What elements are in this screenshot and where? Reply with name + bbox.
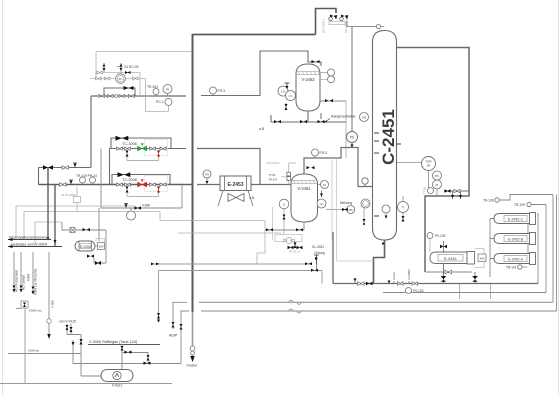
valve manifold TC-1006 <box>116 136 168 161</box>
vertical labels bottom-left <box>13 268 38 295</box>
node: column top nozzle circle <box>376 24 380 28</box>
wire: exchanger bank left feed header <box>490 219 494 278</box>
valve: E-2454 inlet pair <box>83 228 91 231</box>
valve: x=81 down arrow <box>80 339 83 345</box>
svg-text:LI: LI <box>283 203 286 207</box>
svg-text:24 SC xx: 24 SC xx <box>289 250 301 254</box>
wire: x=101 drop from TC-1006 line to KSW line <box>100 149 102 209</box>
valve: suction loop pair <box>125 351 132 354</box>
instrument: TDR-04 <box>422 157 436 171</box>
wire: E-2453 inlet <box>197 184 220 186</box>
svg-text:K09: K09 <box>99 245 104 249</box>
svg-text:KSW zur Merschw.: KSW zur Merschw. <box>34 268 38 295</box>
valve: x=148 arrows <box>147 355 150 361</box>
wire: header left hook y=311 to ADIP/V-9111 <box>181 311 189 364</box>
wire: gray line y=233 <box>178 232 281 234</box>
valve: E-2454 loop pair <box>95 261 101 265</box>
valve: x=73 down arrow <box>72 342 75 346</box>
wire: inter-exchanger connectors x=528 <box>527 224 529 254</box>
valve manifold TC-2006 <box>117 172 168 196</box>
instrument: LI left of V-2461 <box>279 199 289 209</box>
wire: E-2454 inlet line <box>62 222 106 263</box>
svg-text:TR-106: TR-106 <box>483 199 494 203</box>
vessel V-2461 <box>291 174 318 222</box>
valve: open gate pairs left <box>117 147 123 150</box>
svg-text:SC-2451/1: SC-2451/1 <box>322 19 326 33</box>
svg-text:KSW neu: KSW neu <box>29 309 42 313</box>
valve: bypass black gate <box>124 86 134 90</box>
svg-text:HD- Kondensat: HD- Kondensat <box>15 270 19 292</box>
wire: V-9111 inlet from von V-9115 <box>67 324 101 376</box>
wire: PI pair stem <box>436 189 438 196</box>
svg-text:PC-1: PC-1 <box>156 100 164 104</box>
valve: open gate pairs right <box>150 147 156 150</box>
instrument: TR-102 <box>427 233 433 239</box>
wire: gray verticals x=332/336.5 <box>332 158 374 261</box>
wire: V-2462 top inlet with valve <box>308 62 321 65</box>
svg-text:E-2452 C: E-2452 C <box>508 217 524 221</box>
wire: Fackel line below frame <box>192 312 194 357</box>
svg-text:KSW: KSW <box>143 204 151 208</box>
wire: E-2453 outlet to V-2461 <box>251 184 291 186</box>
valve: vent arrows up-down pair 2 <box>120 64 123 72</box>
flare arrow: Fackel <box>190 356 194 362</box>
svg-text:TT-05: TT-05 <box>423 187 427 194</box>
valve: drain T between <box>321 191 323 198</box>
valve: vertical T black <box>294 242 296 248</box>
svg-text:Meldung: Meldung <box>340 201 352 205</box>
instrument: TM circle right of V-2462 bottom line <box>360 113 369 122</box>
svg-text:KSW: KSW <box>27 274 31 281</box>
svg-text:SC-2451/2: SC-2451/2 <box>344 19 348 33</box>
svg-text:L2-0002: L2-0002 <box>407 269 411 280</box>
wire: HD Dampf arrow stem <box>20 252 22 292</box>
signal box with control valve <box>275 235 302 242</box>
svg-text:PI: PI <box>323 183 326 187</box>
instrument: PI right of V-2461 <box>321 181 329 189</box>
wire: V-3006 label underline <box>88 344 160 346</box>
instrument: Meldung circle <box>347 206 355 214</box>
wire: V-2461 instrument stubs <box>318 185 347 210</box>
valves on y=72.5 <box>97 71 103 74</box>
pump V-9111 <box>101 370 133 388</box>
wire: KSW branch down to E-2454 <box>98 208 100 241</box>
wire: nested signal L2 long to relief cluster <box>24 212 265 265</box>
wire: column bottom outlet <box>374 240 385 284</box>
wire: TI x=403 stems <box>402 196 404 220</box>
valve: open gate pairs right <box>150 183 156 186</box>
wire: top-right manifold y=191 <box>444 191 469 199</box>
instrument: LC right of V-2461 <box>317 199 326 208</box>
svg-text:Fackel: Fackel <box>187 364 198 368</box>
bottoms cluster under V-2461 <box>266 228 303 253</box>
column bottom instruments <box>361 199 409 225</box>
wire: V-2461 bottom to valve cluster <box>265 222 304 230</box>
label: ADIP with valve stems <box>172 322 175 328</box>
wire: relief inlet line y=264 <box>151 263 311 265</box>
svg-text:a.B.: a.B. <box>259 127 265 131</box>
wire: header left hook y=302.3 to ADIP <box>173 302 187 329</box>
svg-text:TT-05: TT-05 <box>269 173 276 177</box>
wire: main frame thick top y=34.5 <box>193 34 316 36</box>
svg-text:SL-2451: SL-2451 <box>312 245 324 249</box>
svg-text:E-2452 A: E-2452 A <box>508 257 523 261</box>
svg-text:HD Dampf: HD Dampf <box>22 275 26 290</box>
valve: y=363.5 pair <box>144 362 151 365</box>
valve: bypass black gate TC-1006 <box>116 136 129 141</box>
wire: left riser x=91 <box>90 96 92 168</box>
instrument: PI pair right of column <box>433 171 442 180</box>
labels: LC-02 / L2-0002 vertical <box>388 269 418 285</box>
svg-text:FR-3: FR-3 <box>218 89 226 93</box>
valve: V-9111 riser arrow <box>121 346 124 351</box>
wire: KSW zur arrow stem <box>32 252 34 294</box>
svg-text:24 TC-2006: 24 TC-2006 <box>61 193 76 197</box>
svg-text:V-3006 Raffelgas (Tank-124): V-3006 Raffelgas (Tank-124) <box>89 340 138 344</box>
valve: E-2451 top pair <box>443 241 445 252</box>
bypass loop over y=96 <box>104 88 135 96</box>
wire: V-958 line <box>8 252 81 354</box>
relief valve SL-2451 <box>305 245 325 272</box>
valve: left end arrows of y=264 <box>151 263 159 266</box>
SC-2451 shutoff valves at top <box>322 15 349 34</box>
wire: upper-left main line y=96 <box>91 95 186 97</box>
exchanger E-2452 C <box>494 213 536 225</box>
svg-text:PI: PI <box>436 183 439 187</box>
wire: nested signal L3 <box>35 222 62 247</box>
svg-text:LS: LS <box>281 90 285 94</box>
wire: column top nozzle line <box>347 26 376 28</box>
svg-text:TR-141: TR-141 <box>269 178 278 182</box>
instrument: V-2462 LS circles <box>278 86 288 96</box>
svg-text:PS: PS <box>350 136 354 140</box>
svg-text:TI: TI <box>402 206 405 210</box>
instrument: TR-103 <box>406 288 412 294</box>
svg-text:V-958: V-958 <box>51 300 55 308</box>
wire: bank outer corner x=556.5 <box>556 195 558 312</box>
valve: E-2454 inlet X-valve <box>70 228 75 233</box>
valve: gray gate on y=272 <box>445 270 452 274</box>
component: SC valves base bar <box>329 22 345 25</box>
valve: vent arrows up-down pair 1 <box>103 64 106 72</box>
svg-text:PS: PS <box>435 174 439 178</box>
instrument: PI <box>163 85 172 94</box>
svg-text:E-2452 B: E-2452 B <box>508 237 524 241</box>
svg-text:PI: PI <box>166 88 169 92</box>
svg-text:TR-102: TR-102 <box>435 234 446 238</box>
valve: x=158.5 drain stem arrows <box>157 313 160 319</box>
svg-text:TR-101: TR-101 <box>506 266 517 270</box>
valves on y=184.5 left <box>60 183 67 187</box>
svg-text:V-2461: V-2461 <box>297 186 311 191</box>
bottoms header valve cluster x=355-372 <box>354 278 373 285</box>
svg-text:Frischgaskompressoren: Frischgaskompressoren <box>9 236 47 240</box>
svg-text:LS: LS <box>289 94 293 98</box>
valves on y=169.5 line <box>43 165 53 170</box>
component: KSW neu valve box <box>21 301 28 308</box>
valve: Meldung line pair <box>342 208 348 211</box>
svg-text:FR-2: FR-2 <box>320 151 328 155</box>
exchanger E-2454 <box>75 239 105 252</box>
instrument: V-2462 TI circles <box>328 69 335 76</box>
exchanger E-2451 <box>430 249 486 268</box>
wire: TC-2006 main line y=184.5 <box>39 184 193 186</box>
valve: drain stems TC-2006 <box>127 186 159 197</box>
instrument: FR-3 <box>210 87 217 94</box>
svg-text:FC: FC <box>119 77 123 81</box>
vessel V-2462 <box>296 64 320 111</box>
svg-text:ADIP: ADIP <box>169 334 178 338</box>
upper-left SC-05 group <box>96 63 139 83</box>
valves on y=78.5 <box>96 77 102 80</box>
valve: vent T <box>73 163 77 168</box>
node: Fackel break circles <box>190 346 195 351</box>
valve: V-2462 right nozzle pair <box>325 99 333 102</box>
valve: bypass black gate TC-2006 <box>118 172 131 177</box>
wire: TC-2006 bypass <box>112 175 170 185</box>
page scan edge left <box>2 0 4 395</box>
instrument: FR-2 <box>312 149 319 156</box>
svg-text:TR-103: TR-103 <box>413 289 424 293</box>
valve: V-2462 left drain <box>285 103 287 110</box>
wire: column overhead right y=47.5 down right side to y=196 header <box>397 48 470 273</box>
wire: thick drop x=55 <box>54 185 56 247</box>
valve: manifold y=191 fittings <box>445 189 451 192</box>
wire: KSW line y=208 <box>101 185 182 209</box>
wire: bottoms header y=283.5 <box>333 232 538 284</box>
exchanger E-2452 B <box>494 233 536 245</box>
wire: bank right header x=538 <box>537 213 539 284</box>
wire: KSW neu drop line <box>16 309 25 385</box>
breaks on long headers <box>289 300 301 304</box>
wire: lower gray line y=270.5 to header <box>159 271 323 284</box>
valve: open gate pairs left <box>117 183 123 186</box>
svg-text:Heissgas zum V-3004: Heissgas zum V-3004 <box>11 243 47 247</box>
svg-text:LC-02: LC-02 <box>392 272 396 280</box>
wire: y=169.5 valve line <box>39 149 187 185</box>
wire: drain stem x=158.5 <box>158 271 160 323</box>
valve: pair on y=230 <box>266 228 273 231</box>
wire: TR-106 line over bank <box>499 195 553 303</box>
valve: control valve at x=443.5 <box>441 276 447 279</box>
wire: thick drop x=48 <box>47 168 49 240</box>
wire: header y=292.5 <box>383 292 546 294</box>
control valve circle FC <box>116 74 126 84</box>
wire: SC valve outlet down to column area <box>347 21 352 148</box>
wire: V-9111 suction loop <box>73 340 181 371</box>
instrument: PS before E-2453 <box>203 170 211 178</box>
svg-text:K06: K06 <box>480 257 485 261</box>
valve: E-2454 under-vessel pair <box>87 255 94 258</box>
exchanger E-2452 A <box>494 253 536 265</box>
svg-text:KSW ab: KSW ab <box>28 349 39 353</box>
svg-text:15 barg: 15 barg <box>314 251 325 255</box>
instrument: circle below KSW line <box>127 211 136 220</box>
wire: TC-1006 outlet right run down to E-2453 line <box>197 149 260 185</box>
wire: gray parallel vertical left of column x=346 <box>345 101 347 158</box>
wire: FR-3 line to V-2462 top <box>201 51 321 96</box>
wire: long header y=311 <box>201 310 557 312</box>
wire: TR-105 line <box>531 205 546 293</box>
svg-text:C-2451: C-2451 <box>379 109 398 165</box>
valve: drain stems TC-1006 <box>127 150 159 161</box>
KSW line fittings <box>124 204 128 209</box>
valve: V-2462 left vent T <box>285 83 290 86</box>
svg-text:PS: PS <box>205 173 209 177</box>
wire: V-2462 right nozzle <box>320 100 346 102</box>
svg-text:24 SC-05: 24 SC-05 <box>124 65 138 69</box>
wire: TDR-04 connections <box>397 163 429 192</box>
valve: Rangierschieber black gates on y=122 <box>274 120 281 123</box>
wire: TR-101 line <box>522 266 528 268</box>
page scan edge right <box>558 0 560 395</box>
svg-text:TR-105: TR-105 <box>514 203 525 207</box>
valve: riser pair on V-2461 overhead <box>307 166 315 169</box>
valve: red control valve <box>138 182 147 187</box>
wire: main frame thick vertical x=192 <box>192 34 194 312</box>
svg-text:V-2462: V-2462 <box>301 77 315 82</box>
cooler E-2453 <box>218 176 253 206</box>
wire: overhead riser to SC valves <box>316 9 337 35</box>
wire: E-2451 outlet gray y=272 <box>426 271 473 273</box>
svg-text:TC-1006: TC-1006 <box>122 142 137 146</box>
valve: pairs on y=247.5 <box>288 246 294 249</box>
svg-text:V-9111: V-9111 <box>112 384 122 388</box>
column C-2451 <box>373 31 402 241</box>
wire: long header y=302.3 <box>199 301 553 303</box>
svg-text:Rangierschieber: Rangierschieber <box>331 115 357 119</box>
svg-text:E-2454: E-2454 <box>80 245 91 249</box>
valve: control valve at x=475 <box>472 276 478 279</box>
wire: drains below header <box>460 284 491 299</box>
wire: SC-05 signal loop top <box>90 52 192 112</box>
node: V-958 break circle <box>47 319 52 324</box>
svg-text:E-2451: E-2451 <box>444 256 458 261</box>
wire: TC-1006 bypass <box>111 138 171 149</box>
svg-text:04: 04 <box>427 164 431 168</box>
svg-text:TC-2006: TC-2006 <box>122 178 137 182</box>
svg-text:TM: TM <box>362 116 367 120</box>
wire: HD-Kondensat arrow stem <box>13 252 15 292</box>
svg-text:MS: MS <box>349 208 353 212</box>
svg-text:E-2453: E-2453 <box>227 182 243 188</box>
wire: 24 TC-2006 signal drop <box>76 187 78 212</box>
valves on y=96 line <box>99 95 105 98</box>
wire: bottom-left page line <box>0 383 172 385</box>
wire: feed step line from V-2461 overhead into column <box>304 148 373 187</box>
valve: green control valve <box>138 146 147 151</box>
wire: control valve stems to header <box>444 264 476 284</box>
wire: nested signal L1 <box>16 206 135 240</box>
svg-text:von V-9115: von V-9115 <box>59 320 76 324</box>
instrument: PS above feed <box>347 132 358 143</box>
valve: V-2462 inlet block (black pair) <box>312 60 320 63</box>
node: vent circle on feed line <box>362 178 368 184</box>
wire: V-2462 bottom line (Rangierschieber) <box>271 111 346 122</box>
